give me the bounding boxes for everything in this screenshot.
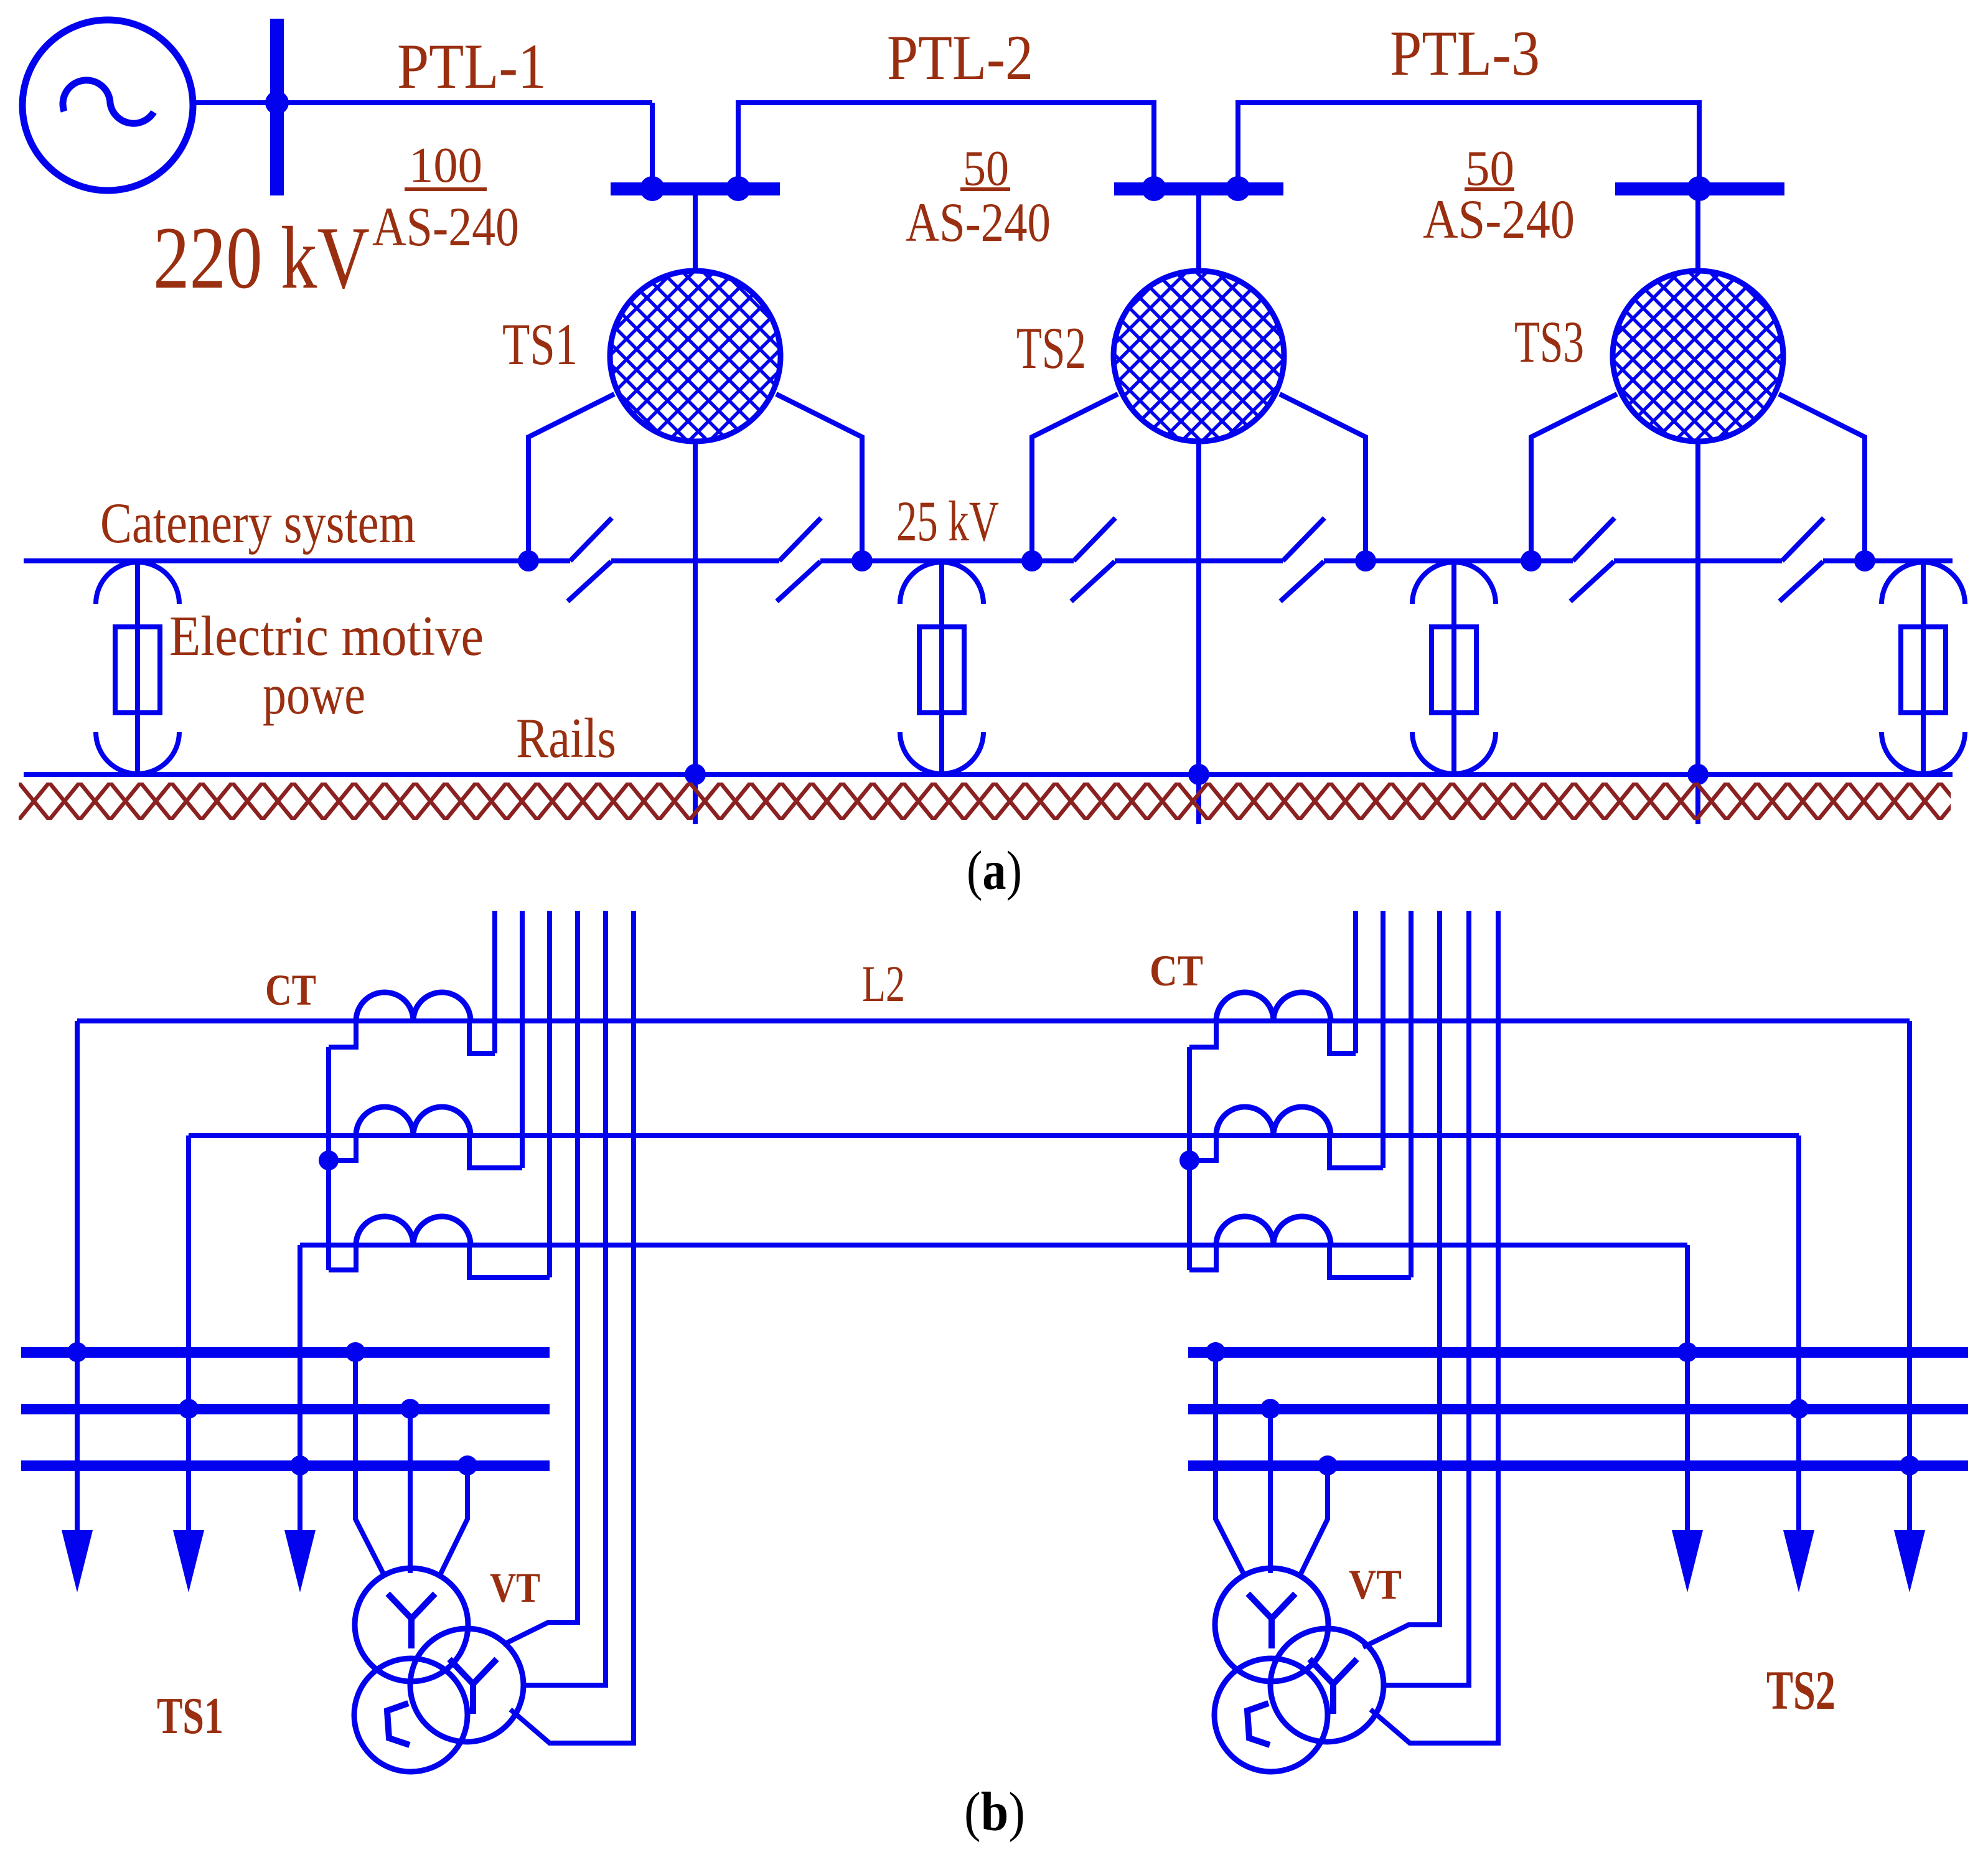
electric motive power unit EM3 xyxy=(1412,561,1496,774)
wire PTL-2 xyxy=(738,103,1154,184)
CT1 left secondary loop xyxy=(329,1021,495,1053)
CT3 right secondary loop xyxy=(1189,1245,1411,1277)
voltage transformer VT right circle 1 xyxy=(1215,1568,1328,1681)
wire CT common vertical left xyxy=(326,1047,331,1270)
Y symbol VT left circle 2 xyxy=(449,1659,497,1714)
wire feeder F2 (from L2) xyxy=(186,1135,191,1533)
svg-text:TS2: TS2 xyxy=(1766,1660,1836,1721)
arrow feeder F5 xyxy=(1783,1530,1814,1592)
wire TS2 center leg to rails xyxy=(1196,441,1201,824)
underline of 50 (PTL-3) xyxy=(1465,187,1514,191)
wire TS3 center leg to rails xyxy=(1695,441,1700,824)
svg-text:Electric motive: Electric motive xyxy=(169,604,484,667)
transformer TS3 xyxy=(1613,271,1783,441)
wire feeder F6 (right, from L1) xyxy=(1907,1021,1912,1533)
svg-text:TS2: TS2 xyxy=(1016,315,1086,381)
svg-text:Rails: Rails xyxy=(516,707,616,769)
svg-text:PTL-1: PTL-1 xyxy=(397,31,546,102)
svg-text:AS-240: AS-240 xyxy=(906,192,1051,253)
wire v4 left xyxy=(503,911,578,1645)
node dots VT droppers left xyxy=(345,1342,365,1362)
node dots feeders on right buses xyxy=(1677,1342,1697,1362)
current transformer CT1 left primary coils xyxy=(356,992,471,1021)
svg-text:AS-240: AS-240 xyxy=(372,197,519,258)
wire VT dropper D3 left xyxy=(439,1465,467,1576)
wire TS3 left leg xyxy=(1531,394,1617,561)
svg-text:powe: powe xyxy=(263,663,365,726)
wire TS2 right leg xyxy=(1280,394,1366,561)
wire v3 right xyxy=(1409,911,1414,1277)
busbar TS1 xyxy=(611,182,780,195)
node dot CT common left xyxy=(319,1150,339,1170)
wire v1 right xyxy=(1353,911,1358,1053)
wire v2 right xyxy=(1381,911,1386,1168)
bus B3 left xyxy=(21,1460,550,1471)
wire feeder F1 (from L1) xyxy=(75,1021,80,1533)
bus 220 kV (vertical bar) xyxy=(270,19,284,195)
wire feeder F3 (from L3) xyxy=(298,1245,302,1533)
bus B1 right xyxy=(1188,1347,1968,1358)
wire v3 left xyxy=(547,911,552,1277)
node dot CT common right xyxy=(1179,1150,1199,1170)
switch S5 blades xyxy=(1570,518,1615,601)
svg-text:TS1: TS1 xyxy=(502,311,578,377)
node dots VT droppers right xyxy=(1206,1342,1226,1362)
VT right circle 2 xyxy=(1270,1629,1384,1742)
svg-text:(a): (a) xyxy=(967,840,1022,901)
wire PTL-1 drop to TS1 busbar xyxy=(650,103,655,184)
electric motive power unit EM2 xyxy=(900,561,983,774)
svg-text:VT: VT xyxy=(490,1564,540,1611)
arrow feeder F2 xyxy=(173,1530,204,1592)
svg-text:25 kV: 25 kV xyxy=(896,489,999,553)
wire TS1 busbar to transformer xyxy=(693,195,698,271)
C symbol VT left circle 3 xyxy=(387,1703,410,1745)
wire v1 left xyxy=(492,911,497,1053)
switch S1 blades xyxy=(568,518,612,601)
switch S3 blades xyxy=(1071,518,1115,601)
CT1 right secondary loop xyxy=(1189,1021,1356,1053)
current transformer CT3 left primary coils xyxy=(356,1216,471,1245)
svg-text:100: 100 xyxy=(409,138,482,193)
node dots on catenary xyxy=(518,550,539,571)
node dots feeders on left buses xyxy=(67,1342,87,1362)
svg-text:VT: VT xyxy=(1349,1561,1402,1608)
C symbol VT right circle 3 xyxy=(1247,1703,1270,1745)
wire TS1 left leg xyxy=(528,394,614,561)
arrow feeder F3 xyxy=(284,1530,316,1592)
Y symbol VT right circle 2 xyxy=(1310,1659,1357,1714)
electric motive power unit EM4 xyxy=(1882,561,1965,774)
voltage transformer VT left circle 1 xyxy=(355,1568,468,1681)
generator G1 (AC source) xyxy=(22,20,193,190)
wire catenary segments xyxy=(24,558,1953,563)
arrow feeder F1 xyxy=(62,1530,93,1592)
wire VT dropper D2 left xyxy=(408,1409,413,1573)
current transformer CT2 right primary coils xyxy=(1216,1107,1331,1135)
CT3 left secondary loop xyxy=(329,1245,550,1277)
bus B3 right xyxy=(1188,1460,1968,1471)
wire TS2 left leg xyxy=(1032,394,1118,561)
arrow feeder F4 xyxy=(1672,1530,1703,1592)
underline of 50 (PTL-2) xyxy=(960,187,1010,191)
wire CT common vertical right xyxy=(1187,1047,1192,1270)
wire TS1 right leg xyxy=(776,394,862,561)
wire line L1 xyxy=(77,1018,1910,1023)
VT right circle 3 xyxy=(1214,1658,1328,1772)
current transformer CT1 right primary coils xyxy=(1216,992,1331,1021)
current transformer CT3 right primary coils xyxy=(1216,1216,1331,1245)
CT2 right secondary loop xyxy=(1189,1135,1383,1168)
svg-text:PTL-2: PTL-2 xyxy=(887,22,1033,93)
svg-text:Catenery system: Catenery system xyxy=(100,491,416,555)
transformer TS1 xyxy=(610,271,781,441)
wire VT dropper D1 right xyxy=(1216,1352,1245,1576)
wire v4 right xyxy=(1363,911,1440,1647)
bus B2 left xyxy=(21,1404,550,1414)
svg-text:TS3: TS3 xyxy=(1514,309,1584,375)
svg-text:(b): (b) xyxy=(964,1782,1025,1843)
wire PTL-3 xyxy=(1238,103,1699,184)
wire VT dropper D3 right xyxy=(1300,1465,1328,1576)
Y symbol VT left circle 1 xyxy=(388,1594,435,1648)
svg-text:L2: L2 xyxy=(862,955,905,1012)
CT2 left secondary loop xyxy=(329,1135,522,1168)
node dots on rails xyxy=(685,764,706,785)
VT left circle 3 xyxy=(354,1658,467,1772)
wire VT dropper D2 right xyxy=(1268,1409,1273,1573)
ground hatch xyxy=(19,783,1951,820)
wire line L3 xyxy=(300,1243,1687,1248)
busbar TS3 xyxy=(1615,182,1784,195)
node dot at 220kV bus xyxy=(265,91,289,115)
node dots on TS2 busbar xyxy=(1142,176,1166,201)
bus B1 left xyxy=(21,1347,550,1358)
svg-text:AS-240: AS-240 xyxy=(1423,189,1575,250)
svg-text:CT: CT xyxy=(265,966,316,1015)
wire rails xyxy=(24,772,1953,777)
transformer TS2 xyxy=(1114,271,1284,441)
arrow feeder F6 xyxy=(1894,1530,1925,1592)
sine symbol inside G1 xyxy=(63,80,154,123)
wire feeder F4 (right, from L3) xyxy=(1685,1245,1690,1533)
switch S4 blades xyxy=(1280,518,1325,601)
busbar TS2 xyxy=(1114,182,1283,195)
svg-text:CT: CT xyxy=(1150,947,1203,995)
wire line L2 xyxy=(189,1133,1799,1138)
svg-text:PTL-3: PTL-3 xyxy=(1390,18,1540,89)
switch S2 blades xyxy=(777,518,821,601)
wire G1 to 220kV bus xyxy=(193,100,652,105)
switch S6 blades xyxy=(1779,518,1824,601)
wire TS3 busbar to transformer xyxy=(1695,195,1700,271)
node dot on TS3 busbar xyxy=(1687,176,1712,201)
wire v6 right xyxy=(1371,911,1498,1743)
underline of 100 xyxy=(405,187,487,191)
wire feeder F5 (right, from L2) xyxy=(1796,1135,1801,1533)
svg-text:TS1: TS1 xyxy=(157,1687,223,1745)
wire TS2 busbar to transformer xyxy=(1196,195,1201,271)
wire v2 left xyxy=(520,911,525,1168)
wire v6 left xyxy=(510,911,634,1743)
Y symbol VT right circle 1 xyxy=(1248,1594,1295,1648)
electric motive power unit EM1 xyxy=(96,561,179,774)
current transformer CT2 left primary coils xyxy=(356,1107,471,1135)
node dots on TS1 busbar xyxy=(640,176,665,201)
bus B2 right xyxy=(1188,1404,1968,1414)
VT left circle 2 xyxy=(410,1629,523,1742)
wire v5 left xyxy=(523,911,606,1685)
wire v5 right xyxy=(1384,911,1469,1685)
svg-text:220 kV: 220 kV xyxy=(153,209,370,307)
wire TS3 right leg xyxy=(1779,394,1865,561)
wire VT dropper D1 left xyxy=(355,1352,385,1576)
wire TS1 center leg to rails xyxy=(693,441,698,824)
